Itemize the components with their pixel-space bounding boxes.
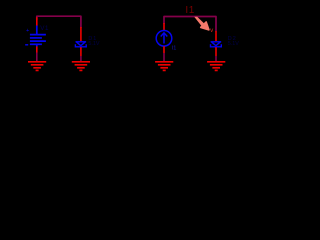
wire: [37, 16, 81, 28]
svg-text:5.1V: 5.1V: [228, 41, 239, 47]
ground: [72, 62, 90, 71]
battery V1 minus label: [25, 44, 28, 46]
annotation arrow (cursor): [194, 17, 209, 30]
wire: [215, 31, 217, 41]
battery V1: [30, 26, 46, 47]
wire: [36, 53, 38, 62]
wire: [36, 46, 38, 52]
svg-text:I1: I1: [172, 45, 177, 51]
zener diode D1: [75, 42, 86, 47]
wire: [80, 47, 82, 56]
svg-text:V1: V1: [40, 25, 49, 32]
wire: [163, 53, 165, 62]
wire: [164, 17, 216, 32]
wire: [80, 27, 82, 41]
svg-text:I1: I1: [185, 5, 195, 16]
wire: [80, 56, 82, 62]
wire: [215, 56, 217, 62]
svg-text:+: +: [26, 28, 30, 34]
ground: [207, 62, 225, 71]
ground: [28, 62, 46, 71]
zener diode D2: [211, 42, 222, 47]
wire: [163, 23, 165, 31]
wire: [215, 47, 217, 56]
svg-text:v: v: [210, 27, 214, 34]
wire: [36, 17, 38, 26]
svg-text:5.1V: 5.1V: [88, 41, 99, 47]
ground: [155, 62, 173, 71]
wire: [163, 46, 165, 53]
current source I1: [156, 31, 172, 47]
